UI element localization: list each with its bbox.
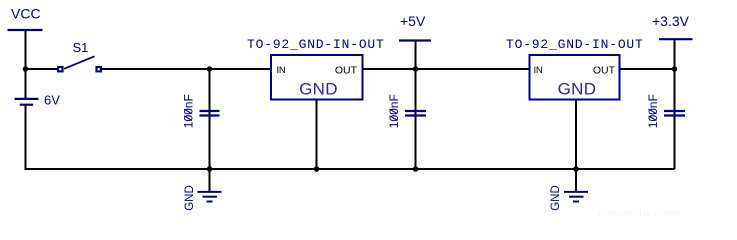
watermark [597,205,680,221]
junction node VCC/switch [23,66,29,72]
svg-text:IN: IN [277,65,286,76]
ground 2 [550,185,588,211]
junction node C1 top [207,66,213,72]
capacitor C1 100nF [181,94,219,128]
power flag VCC [8,6,43,31]
wire U2 GND pin [575,100,577,169]
junction node U1 GND [314,166,320,172]
svg-text:GND: GND [550,185,562,211]
svg-text:TO-92_GND-IN-OUT: TO-92_GND-IN-OUT [506,37,644,52]
regulator U1 TO-92_GND-IN-OUT [247,37,385,100]
junction node U2 GND [573,166,579,172]
wire switch to U1 IN [102,68,272,70]
wire left rail upper [25,30,27,98]
junction node C1 bottom [207,166,213,172]
junction node C2 bottom [413,166,419,172]
svg-text:IN: IN [534,65,543,76]
svg-text:S1: S1 [73,40,89,55]
junction node +5V [413,66,419,72]
capacitor C3 100nF [646,94,685,128]
power flag +3.3V [652,13,693,39]
switch S1 [58,40,101,71]
wire ground 1 stub [209,169,211,191]
svg-text:GND: GND [184,185,196,211]
svg-text:OUT: OUT [593,65,616,77]
wire +5V / C2 vertical [415,41,417,169]
wire C1 vertical [209,69,211,169]
wire U1 OUT to U2 IN [363,68,530,70]
svg-text:VCC: VCC [11,6,41,22]
svg-text:OUT: OUT [335,65,358,77]
svg-text:+3.3V: +3.3V [652,13,690,29]
svg-text:GND: GND [558,79,597,98]
svg-text:easyeda.com: easyeda.com [597,205,680,216]
wire U2 OUT to C3 [620,68,675,70]
battery 6V [15,92,61,107]
wire bottom rail [26,168,675,170]
svg-text:GND: GND [299,79,338,98]
regulator U2 TO-92_GND-IN-OUT [506,37,644,100]
svg-text:6V: 6V [44,92,60,107]
svg-text:+5V: +5V [400,13,426,29]
wire ground 2 stub [575,169,577,191]
ground 1 [184,185,221,211]
wire +3.3V / C3 vertical [674,40,676,169]
svg-text:TO-92_GND-IN-OUT: TO-92_GND-IN-OUT [247,37,385,52]
power flag +5V [399,13,431,41]
wire VCC to switch [26,68,58,70]
capacitor C2 100nF [387,94,426,128]
wire left rail lower [25,105,27,170]
wire U1 GND pin [316,100,318,169]
junction node +3.3V [672,66,678,72]
